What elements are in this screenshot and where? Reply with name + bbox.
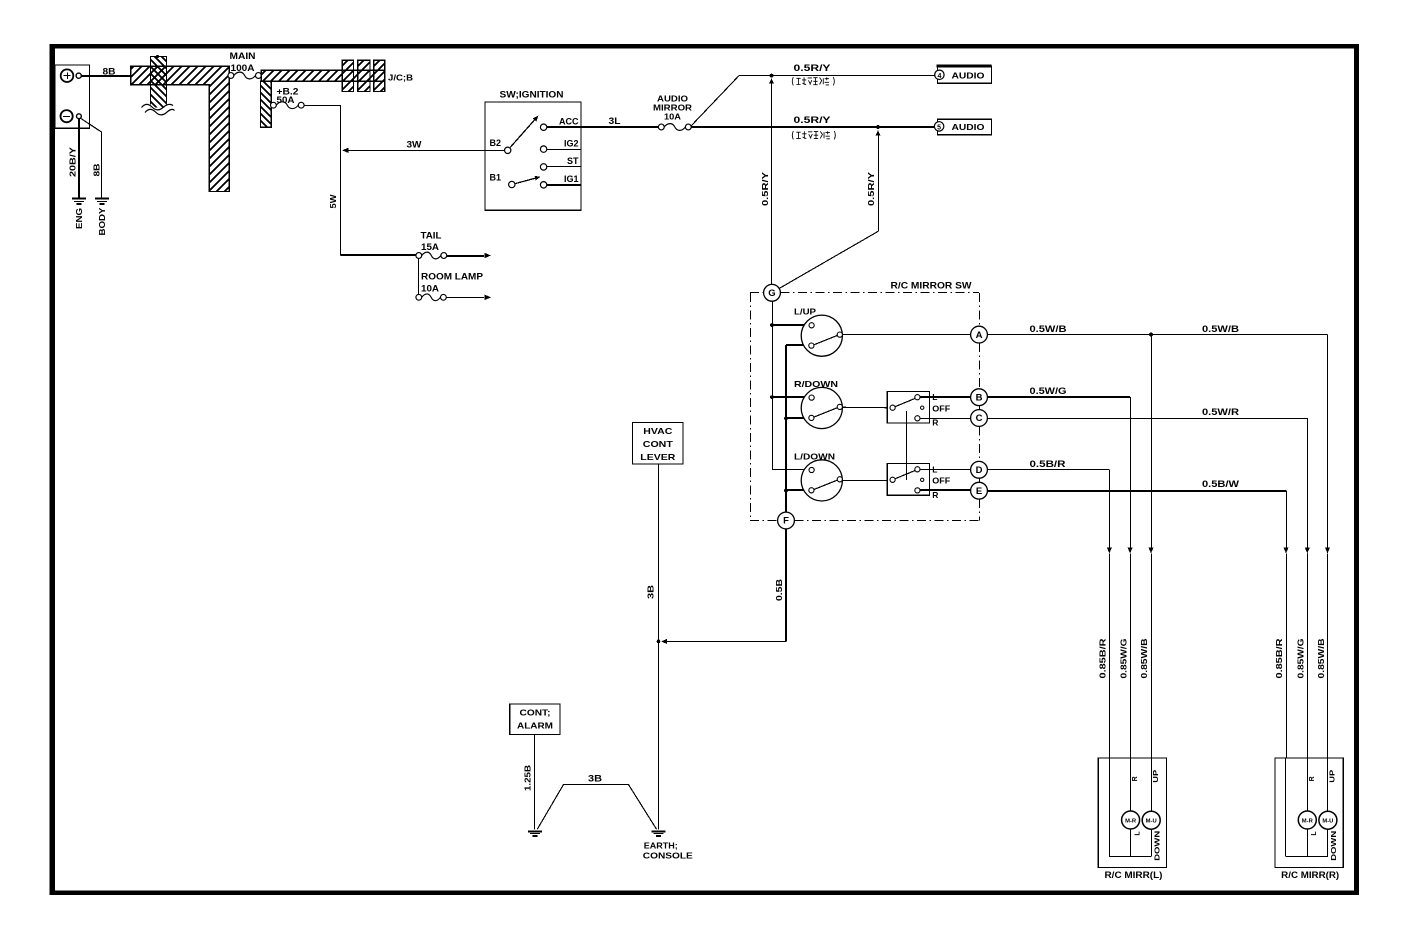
svg-text:M-R: M-R — [1302, 818, 1313, 824]
svg-text:0.85B/R: 0.85B/R — [1098, 639, 1108, 679]
svg-text:L: L — [1311, 831, 1318, 836]
wire diagonal to node G — [779, 231, 878, 288]
svg-text:R/C MIRR(L): R/C MIRR(L) — [1105, 870, 1163, 880]
fuse AUDIO MIRROR 10A — [658, 124, 691, 131]
inline connector arrow — [1128, 548, 1133, 554]
wire ROOM LAMP output — [446, 297, 484, 299]
svg-text:DOWN: DOWN — [1331, 831, 1338, 861]
selector switch 1 (L/OFF/R) — [887, 391, 950, 427]
destination box AUDIO (5) — [934, 119, 991, 135]
junction on 0.5W/B — [1149, 333, 1153, 337]
battery — [55, 65, 90, 128]
wire 5W feed down — [340, 105, 342, 255]
wire down x=1327.5 — [1327, 335, 1329, 548]
svg-text:ALARM: ALARM — [517, 721, 553, 731]
HVAC CONT LEVER box — [633, 423, 683, 464]
svg-text:0.85W/B: 0.85W/B — [1316, 639, 1326, 679]
note (ext amp-less) japanese — [792, 77, 834, 85]
inline connector arrow — [1325, 548, 1330, 554]
svg-text:CONT: CONT — [643, 439, 674, 449]
svg-text:L: L — [1134, 831, 1141, 836]
wire 8B battery plus to fusible link bar — [81, 75, 130, 77]
fuse +B.2 50A — [271, 102, 305, 109]
svg-text:B2: B2 — [490, 138, 502, 148]
svg-text:R: R — [932, 490, 938, 500]
svg-text:R/DOWN: R/DOWN — [794, 379, 838, 389]
note (with ext amp) japanese — [792, 131, 835, 139]
ground ENG — [72, 199, 86, 205]
svg-text:0.85W/G: 0.85W/G — [1119, 638, 1129, 678]
svg-text:IG2: IG2 — [564, 138, 579, 148]
bus bar 2 (hatched) — [261, 70, 385, 81]
svg-text:0.5B: 0.5B — [774, 579, 784, 601]
+B.2 feed bar (hatched) — [261, 81, 272, 127]
svg-text:B1: B1 — [490, 173, 502, 183]
svg-text:20B/Y: 20B/Y — [68, 147, 78, 177]
pin ST — [540, 164, 546, 170]
connector E — [971, 482, 988, 499]
junction on upper audio wire — [770, 74, 774, 78]
wire 0.5R/Y down to G — [771, 81, 773, 285]
connector A — [971, 326, 988, 343]
inline connector arrow — [1107, 548, 1112, 554]
fuse ROOM LAMP 10A — [416, 294, 446, 301]
svg-text:LEVER: LEVER — [640, 452, 675, 462]
wire branch to audio (w/o amp) — [691, 76, 739, 127]
junction on 3B wire — [657, 640, 661, 644]
wire selector1 L to B — [920, 396, 970, 398]
wire 3B HVAC to earth — [658, 464, 660, 830]
wire 1.25B to ground — [534, 735, 536, 830]
svg-text:8B: 8B — [103, 66, 117, 76]
svg-text:A: A — [976, 330, 983, 341]
wire R/DOWN to selector 1 — [842, 406, 887, 408]
feed to R/DOWN top — [770, 396, 809, 398]
arrow TAIL circuit continues — [485, 253, 492, 258]
wire selector2 L to D — [920, 469, 970, 471]
svg-text:ST: ST — [567, 156, 579, 166]
svg-text:SW;IGNITION: SW;IGNITION — [500, 89, 564, 99]
svg-text:0.5R/Y: 0.5R/Y — [794, 115, 831, 125]
wire TAIL output — [447, 255, 484, 257]
svg-text:0.5W/G: 0.5W/G — [1030, 386, 1067, 396]
svg-text:0.5W/R: 0.5W/R — [1202, 407, 1240, 417]
connector C — [971, 410, 988, 427]
svg-text:4: 4 — [937, 73, 941, 80]
mirror assembly R/C MIRR(L) — [1098, 758, 1166, 880]
svg-text:ACC: ACC — [559, 116, 579, 126]
connector D — [971, 461, 988, 478]
svg-text:8B: 8B — [92, 164, 102, 177]
wire 5W to TAIL fuse — [340, 254, 419, 256]
R/C MIRROR SW case (dash-dot) — [750, 293, 980, 521]
wire 0.5R/Y to audio 4 — [739, 75, 938, 77]
svg-text:UP: UP — [1153, 769, 1160, 782]
motor M (U-D) R/C MIRR(L) — [1142, 811, 1160, 829]
switch L/UP — [794, 307, 842, 357]
wire selector1 R to C — [920, 418, 970, 420]
motor M (L-R) R/C MIRR(L) — [1122, 811, 1140, 829]
feed from L/DOWN bottom — [786, 489, 808, 491]
svg-text:10A: 10A — [664, 112, 681, 122]
wire 0.5R/Y down — [878, 133, 880, 232]
wire 20B/Y battery minus to ENG ground — [78, 119, 80, 199]
destination box AUDIO (4) — [935, 66, 992, 83]
motor M (U-D) R/C MIRR(R) — [1319, 811, 1337, 829]
svg-text:0.85B/R: 0.85B/R — [1274, 639, 1284, 679]
node G — [764, 284, 781, 301]
wire 3B link diagonal left — [537, 785, 563, 829]
feed to L/UP top — [770, 324, 809, 326]
fuse TAIL 15A — [416, 252, 447, 259]
svg-text:0.5W/B: 0.5W/B — [1202, 324, 1240, 334]
rail to F — [785, 345, 787, 512]
rail from G — [772, 301, 774, 470]
connector arrow up 2 — [876, 130, 881, 136]
wire 3W inside box to B2 — [485, 150, 504, 152]
svg-text:G: G — [768, 288, 775, 299]
pin IG1 — [540, 182, 546, 188]
inline connector arrow — [1305, 548, 1310, 554]
svg-text:UP: UP — [1330, 769, 1337, 782]
svg-text:IG1: IG1 — [564, 174, 579, 184]
switch L/DOWN — [794, 451, 842, 501]
svg-text:3B: 3B — [646, 585, 656, 599]
svg-text:0.5R/Y: 0.5R/Y — [866, 172, 876, 206]
wire 0.5R/Y to audio 5 — [691, 126, 937, 128]
svg-text:D: D — [976, 465, 983, 476]
svg-text:F: F — [783, 516, 789, 527]
svg-text:M-U: M-U — [1322, 819, 1333, 825]
svg-text:OFF: OFF — [932, 476, 950, 486]
switch R/DOWN — [794, 379, 842, 429]
svg-text:BODY: BODY — [97, 207, 107, 235]
svg-text:ENG: ENG — [74, 208, 84, 229]
harness branch bar (hatched, with break) — [142, 55, 175, 115]
wire 0.5B/W from E — [987, 490, 1286, 492]
connector arrow into 3W junction — [342, 148, 349, 154]
wire from +B.2 fuse — [304, 105, 341, 107]
wire selector2 R to E — [920, 489, 970, 491]
svg-text:MAIN: MAIN — [230, 51, 256, 61]
connector arrow into 3B wire — [661, 639, 667, 644]
svg-text:15A: 15A — [421, 242, 440, 252]
motor M (L-R) R/C MIRR(R) — [1298, 811, 1316, 829]
svg-text:CONT;: CONT; — [520, 708, 551, 718]
svg-text:L/UP: L/UP — [794, 307, 816, 317]
pin IG2 — [540, 146, 546, 152]
ground EARTH;CONSOLE — [652, 832, 666, 837]
wire down x=1286 — [1286, 491, 1288, 548]
svg-text:CONSOLE: CONSOLE — [643, 851, 693, 861]
svg-text:E: E — [976, 486, 982, 497]
switch arm B2-ACC — [510, 119, 535, 147]
svg-text:M-U: M-U — [1146, 819, 1157, 825]
wire branch to ROOM LAMP fuse — [418, 258, 420, 294]
svg-text:J/C;B: J/C;B — [388, 73, 413, 83]
ground BODY — [95, 199, 109, 205]
wire 3B link horizontal — [563, 784, 629, 786]
wire down x=1307.3 — [1307, 418, 1309, 548]
svg-text:EARTH;: EARTH; — [644, 841, 678, 851]
feed from L/UP bottom — [786, 344, 808, 346]
wire L/DOWN to selector 2 — [842, 480, 887, 482]
svg-text:0.5R/Y: 0.5R/Y — [760, 172, 770, 206]
wire 8B battery minus to BODY ground — [101, 132, 103, 199]
mirror assembly R/C MIRR(R) — [1275, 758, 1343, 880]
pin B2 — [505, 147, 511, 153]
wire 3W to ignition switch B2 — [344, 150, 485, 152]
switch arm B1-IG1 — [515, 178, 536, 184]
svg-text:AUDIO: AUDIO — [952, 122, 985, 132]
mechanical link between selectors — [906, 411, 908, 480]
svg-text:R: R — [1132, 776, 1139, 781]
connector B — [971, 389, 988, 406]
fusible link bus bar (L-shaped, hatched) — [131, 66, 230, 191]
wire 0.5W/G from B — [987, 396, 1130, 398]
node F — [778, 512, 795, 529]
wire 0.5B from F — [785, 529, 787, 642]
svg-text:R/C MIRR(R): R/C MIRR(R) — [1281, 870, 1339, 880]
svg-text:0.5B/W: 0.5B/W — [1202, 479, 1240, 489]
svg-text:B: B — [976, 392, 983, 403]
wire L/UP to A — [842, 334, 970, 336]
CONT;ALARM box — [510, 704, 560, 735]
wire 0.5W/B from A — [987, 334, 1327, 336]
svg-text:ROOM LAMP: ROOM LAMP — [421, 271, 483, 281]
pin ACC — [540, 124, 546, 130]
svg-text:TAIL: TAIL — [421, 231, 443, 241]
svg-text:M-R: M-R — [1125, 818, 1136, 824]
svg-text:C: C — [976, 413, 983, 424]
inline connector arrow — [1284, 548, 1289, 554]
connector arrow up — [769, 78, 774, 84]
svg-text:0.85W/B: 0.85W/B — [1139, 639, 1149, 679]
svg-text:R: R — [1309, 776, 1316, 781]
inline connector arrow — [1149, 548, 1154, 554]
svg-text:DOWN: DOWN — [1154, 831, 1161, 861]
junction on lower audio wire — [876, 125, 880, 129]
svg-text:0.5R/Y: 0.5R/Y — [794, 63, 831, 73]
svg-text:5: 5 — [937, 124, 941, 131]
svg-text:OFF: OFF — [932, 404, 950, 414]
wire down x=1130.1 — [1130, 397, 1132, 547]
svg-text:3L: 3L — [609, 116, 622, 126]
ignition switch SW;IGNITION — [485, 89, 581, 210]
svg-text:AUDIO: AUDIO — [952, 70, 985, 80]
selector switch 2 (L/OFF/R) — [887, 464, 950, 500]
svg-text:5W: 5W — [328, 193, 338, 208]
svg-text:3W: 3W — [407, 139, 423, 149]
fuse MAIN 100A — [228, 72, 261, 79]
arrow ROOM LAMP circuit continues — [485, 295, 492, 301]
svg-text:0.85W/G: 0.85W/G — [1295, 638, 1305, 678]
wire 3B link diagonal right — [629, 785, 657, 829]
wire 3L — [581, 126, 659, 128]
wire 0.5W/R from C — [987, 418, 1307, 420]
svg-text:L/DOWN: L/DOWN — [794, 451, 835, 461]
pin B1 — [509, 181, 515, 187]
wire 0.5B/R from D — [987, 469, 1109, 471]
wire down x=1109.4 — [1109, 470, 1111, 548]
svg-text:50A: 50A — [277, 95, 296, 105]
svg-text:1.25B: 1.25B — [522, 765, 532, 791]
junction block J/C;B (hatched blocks) — [342, 60, 385, 91]
feed from R/DOWN bottom — [786, 417, 808, 419]
svg-text:10A: 10A — [421, 283, 440, 293]
ground console alarm — [528, 832, 542, 837]
svg-text:R: R — [932, 418, 938, 428]
svg-text:3B: 3B — [588, 774, 603, 784]
svg-text:0.5B/R: 0.5B/R — [1030, 459, 1067, 469]
wire down x=1151 — [1151, 335, 1153, 548]
feed to L/DOWN top — [772, 469, 808, 471]
wire 0.5B to earth junction — [664, 641, 786, 643]
svg-text:HVAC: HVAC — [643, 426, 672, 436]
svg-text:100A: 100A — [231, 63, 256, 73]
wire 8B battery minus diagonal — [81, 118, 102, 132]
svg-text:0.5W/B: 0.5W/B — [1030, 324, 1068, 334]
svg-text:R/C MIRROR SW: R/C MIRROR SW — [891, 280, 973, 290]
